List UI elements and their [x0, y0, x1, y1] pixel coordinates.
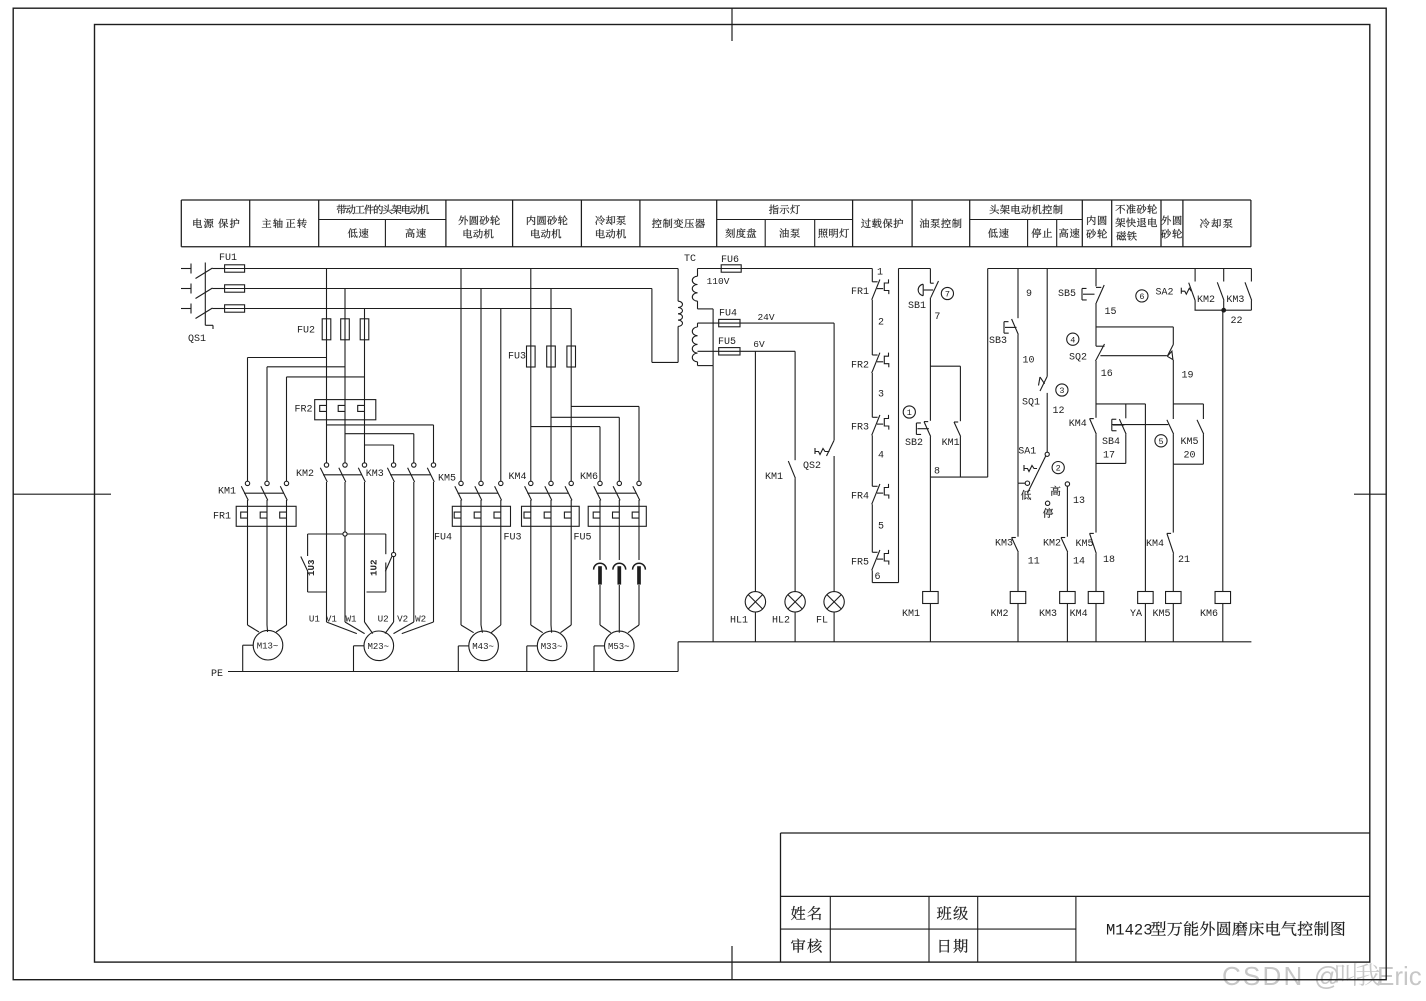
svg-text:M33~: M33~ — [541, 642, 563, 652]
svg-text:QS2: QS2 — [803, 461, 821, 472]
contactor KM5 main contacts — [455, 481, 503, 500]
wire to KM5 coil — [1172, 554, 1174, 592]
wire SB1 to SB2 — [929, 298, 931, 421]
lamp HL1 — [745, 592, 765, 642]
function header table labels — [193, 204, 1232, 240]
wire taps to KM1 — [248, 358, 365, 482]
title block label 日期 — [940, 939, 968, 953]
wire SB2 to KM1 coil — [929, 477, 931, 591]
wire KM2tr stub — [1223, 269, 1225, 282]
wire KM1 to motor M1 — [248, 500, 287, 632]
svg-text:KM4: KM4 — [1070, 609, 1088, 620]
svg-text:V1: V1 — [326, 614, 338, 625]
wire SB1 rail top — [929, 269, 931, 284]
svg-text:16: 16 — [1101, 369, 1113, 380]
stop button SB5 — [1082, 285, 1104, 303]
svg-text:KM3: KM3 — [995, 539, 1013, 550]
wire to KM4 aux b — [1172, 464, 1174, 532]
switch QS2 — [815, 440, 834, 456]
contactor KM1 main contacts — [241, 481, 288, 500]
svg-text:FR3: FR3 — [851, 423, 869, 434]
svg-text:FU5: FU5 — [718, 337, 736, 348]
coil YA — [1138, 592, 1154, 604]
contactor KM6 main contacts — [594, 481, 641, 500]
thermal contact FR3 — [872, 415, 889, 435]
svg-text:KM3: KM3 — [1226, 295, 1244, 306]
svg-text:110V: 110V — [707, 276, 730, 287]
svg-text:4: 4 — [878, 451, 884, 462]
thermal relay under KM5 (FU4) — [452, 506, 510, 526]
svg-text:HL1: HL1 — [730, 615, 748, 626]
stop button SB1 — [918, 281, 938, 298]
coil KM2 — [1010, 592, 1026, 604]
label 高 — [1051, 486, 1061, 496]
svg-text:7: 7 — [945, 290, 950, 300]
label 1U3 — [0, 0, 1, 1]
lamp FL — [824, 592, 844, 642]
transformer TC — [652, 269, 721, 642]
contactor KM2 main contacts — [320, 463, 366, 482]
wire node 8 — [930, 437, 987, 478]
svg-text:17: 17 — [1103, 450, 1115, 461]
svg-text:FL: FL — [816, 615, 828, 626]
svg-text:QS1: QS1 — [188, 334, 206, 345]
limit switch SQ2 contact a — [1096, 344, 1105, 361]
svg-text:3: 3 — [878, 389, 884, 400]
motor M2 circle — [364, 631, 394, 661]
svg-text:FR1: FR1 — [851, 287, 869, 298]
contact KM3 aux top — [1245, 282, 1252, 310]
svg-text:SB1: SB1 — [908, 301, 926, 312]
coil KM3 — [1060, 592, 1076, 604]
svg-text:KM4: KM4 — [508, 472, 526, 483]
svg-text:1: 1 — [907, 408, 912, 418]
svg-text:M23~: M23~ — [367, 642, 389, 652]
svg-text:10: 10 — [1022, 355, 1034, 366]
svg-text:KM1: KM1 — [942, 438, 960, 449]
svg-text:FU3: FU3 — [503, 533, 521, 544]
contact KM4 aux — [1090, 419, 1097, 435]
node circle 6 — [1136, 290, 1148, 302]
wire SA1-low to KM3 contact — [1017, 483, 1019, 537]
contact KM2 aux — [1061, 538, 1068, 553]
svg-text:SB5: SB5 — [1058, 289, 1076, 300]
svg-text:KM4: KM4 — [1146, 539, 1164, 550]
svg-text:M1423: M1423 — [1106, 922, 1153, 940]
label 低 — [1021, 490, 1031, 500]
contact SA1 high position circle — [1065, 482, 1069, 486]
wire KM3 coil to bus — [1066, 604, 1068, 642]
svg-text:HL2: HL2 — [772, 615, 790, 626]
start button SB2 — [916, 422, 930, 437]
svg-text:YA: YA — [1130, 609, 1142, 620]
wire KM3tr stub — [1250, 269, 1252, 282]
coil KM1 — [923, 592, 939, 604]
svg-text:24V: 24V — [757, 312, 774, 323]
svg-text:1U3: 1U3 — [306, 559, 317, 576]
svg-text:3: 3 — [1059, 386, 1064, 396]
wire taps to KM6 — [531, 406, 639, 481]
svg-text:KM1: KM1 — [902, 609, 920, 620]
svg-text:Eric: Eric — [1377, 961, 1422, 991]
PE bus — [228, 642, 678, 672]
svg-text:FU6: FU6 — [721, 255, 739, 266]
centering mark right — [1354, 493, 1386, 495]
fuse FU1 — [225, 265, 245, 312]
svg-text:M13~: M13~ — [257, 641, 279, 651]
svg-text:1U2: 1U2 — [368, 559, 379, 576]
wire phase L1 bus — [245, 268, 678, 270]
wire 19 rail — [1172, 360, 1174, 404]
wire KM1 contact to HL2 — [794, 478, 796, 591]
wire phase drops to KM5 — [461, 269, 501, 482]
contactor KM3 main contacts — [387, 463, 435, 482]
svg-text:SQ1: SQ1 — [1022, 397, 1040, 408]
svg-text:KM5: KM5 — [438, 474, 456, 485]
svg-text:6: 6 — [874, 572, 880, 583]
svg-text:5: 5 — [1158, 437, 1163, 447]
thermal contact FR5 — [872, 550, 889, 570]
title block label 班级 — [937, 906, 968, 920]
function header table grid — [181, 200, 1251, 247]
title block label 审核 — [791, 939, 822, 953]
wire phase L3 bus — [245, 308, 572, 310]
drawing title M1423型万能外圆磨床电气控制图 — [1106, 921, 1345, 940]
selector SA2 — [1181, 283, 1195, 311]
wire node22 to KM6 coil — [1222, 310, 1224, 591]
svg-text:6V: 6V — [753, 339, 765, 350]
contact KM1 aux — [954, 422, 961, 437]
limit switch SQ2 contact b — [1167, 345, 1173, 360]
svg-text:15: 15 — [1104, 307, 1116, 318]
fuse FU5 control — [719, 348, 795, 355]
svg-text:SB2: SB2 — [905, 438, 923, 449]
svg-text:KM3: KM3 — [366, 469, 384, 480]
wire KM4 to KM5b contact — [1095, 434, 1097, 532]
svg-text:KM1: KM1 — [765, 472, 783, 483]
svg-text:KM2: KM2 — [1043, 539, 1061, 550]
centering mark top — [731, 8, 733, 41]
svg-text:U1: U1 — [309, 614, 321, 625]
wire KM3 contact to KM2 coil — [1017, 552, 1019, 591]
wire SB5 rail — [1095, 269, 1097, 287]
fuse FU6 — [721, 265, 872, 272]
node circle 4 — [1067, 333, 1079, 345]
svg-text:SB4: SB4 — [1102, 437, 1120, 448]
node circle 3 — [1056, 384, 1068, 396]
svg-text:FR2: FR2 — [294, 405, 312, 416]
lamp HL2 — [785, 592, 805, 642]
wire KM4 to motor M3 — [531, 500, 571, 633]
thermal contact FR2 — [872, 353, 889, 373]
contact KM4 aux b — [1167, 533, 1174, 553]
wire M2 speed-change loop — [301, 482, 434, 622]
svg-text:KM5: KM5 — [1180, 437, 1198, 448]
node circle 7 — [941, 287, 953, 299]
svg-text:PE: PE — [211, 669, 223, 680]
disconnect switch QS1 — [181, 263, 225, 330]
svg-text:20: 20 — [1183, 450, 1195, 461]
svg-text:7: 7 — [934, 312, 940, 323]
svg-text:12: 12 — [1052, 406, 1064, 417]
svg-text:KM2: KM2 — [990, 609, 1008, 620]
wire SB4 bottom — [1096, 434, 1126, 463]
wire QS2 to FL — [833, 456, 835, 592]
svg-text:2: 2 — [878, 318, 884, 329]
wire SQ1 rail — [1046, 269, 1048, 377]
wire KM2 contact to KM3 coil — [1066, 552, 1068, 591]
wire bracket at 403.9 — [1096, 404, 1145, 592]
start button SB4 — [1112, 419, 1126, 434]
start button SB3 — [1004, 319, 1018, 335]
wire control bus 0V — [678, 641, 1251, 643]
svg-text:SB3: SB3 — [989, 336, 1007, 347]
svg-text:9: 9 — [1026, 289, 1032, 300]
motor M1 — [253, 630, 283, 660]
svg-text:2: 2 — [1056, 464, 1061, 474]
svg-text:W1: W1 — [345, 614, 357, 625]
svg-text:CSDN @: CSDN @ — [1222, 961, 1343, 991]
svg-text:SA2: SA2 — [1155, 288, 1173, 299]
node circle 5 — [1155, 435, 1167, 447]
svg-text:KM5: KM5 — [1075, 539, 1093, 550]
svg-text:FR4: FR4 — [851, 492, 869, 503]
watermark CSDN @叫我Eric — [1222, 961, 1422, 991]
motor M3 — [537, 631, 567, 661]
wire control rail left — [899, 269, 931, 583]
svg-text:KM1: KM1 — [218, 487, 236, 498]
svg-text:SQ2: SQ2 — [1069, 353, 1087, 364]
thermal contact FR4 — [872, 484, 889, 504]
fuse FU3 — [527, 269, 576, 482]
svg-text:TC: TC — [684, 254, 696, 265]
node circle 2 — [1052, 462, 1064, 474]
wire node 22 — [1195, 308, 1252, 313]
wire SA2 stub — [1194, 269, 1196, 282]
contact SA1 stop position circle — [1045, 501, 1049, 505]
wire rail node8 riser — [987, 269, 989, 478]
thermal relay FR1 — [236, 506, 296, 526]
wire to KM1 lamp contact — [794, 351, 796, 460]
wire branch 15 to 19 — [1096, 327, 1173, 345]
svg-text:V2: V2 — [397, 614, 408, 625]
wire overload chain — [872, 269, 898, 583]
fuse FU2 — [322, 269, 369, 400]
svg-text:FU3: FU3 — [508, 352, 526, 363]
wire SB3 rail — [1017, 269, 1019, 319]
contact SA1 low position circle — [1025, 481, 1029, 485]
svg-text:21: 21 — [1178, 555, 1190, 566]
wire into motor M2 — [327, 622, 434, 634]
wire YA coil to bus — [1144, 604, 1146, 642]
svg-text:FR1: FR1 — [213, 512, 231, 523]
svg-text:KM2: KM2 — [1197, 295, 1215, 306]
coil KM5 — [1166, 592, 1182, 604]
svg-text:FR5: FR5 — [851, 558, 869, 569]
node circle 1 — [903, 406, 915, 418]
svg-text:8: 8 — [934, 467, 940, 478]
centering mark bottom — [731, 946, 733, 980]
wire KM2 coil to bus — [1017, 604, 1019, 642]
wire KM1 coil to bus — [929, 604, 931, 642]
coil KM6 — [1215, 592, 1231, 604]
contact KM5 branch a — [1167, 420, 1174, 434]
svg-text:M43~: M43~ — [472, 642, 494, 652]
svg-text:6: 6 — [1139, 292, 1144, 302]
wire SB3 to SA1-low — [1018, 335, 1025, 484]
wire FU2 columns to KM2 and KM3 banks — [327, 420, 434, 463]
wire KM5 to motor M4 — [461, 500, 501, 633]
svg-text:M53~: M53~ — [608, 642, 630, 652]
title block grid — [781, 833, 1370, 962]
svg-text:KM2: KM2 — [296, 469, 314, 480]
svg-text:KM5: KM5 — [1152, 609, 1170, 620]
wire branch to KM1 aux — [930, 366, 960, 421]
svg-text:W2: W2 — [415, 614, 426, 625]
centering mark left — [13, 493, 111, 495]
wire SA1-high to KM2 contact — [1066, 486, 1068, 537]
wire to KM4 coil — [1095, 554, 1097, 592]
contact KM3 aux — [1012, 538, 1019, 553]
wire KM5 coil to bus — [1172, 604, 1174, 642]
wire SQ2 cross link — [1100, 355, 1167, 357]
svg-text:14: 14 — [1073, 556, 1085, 567]
wire KM5 branch bracket — [1173, 404, 1203, 419]
wire right section bus — [988, 268, 1252, 270]
svg-text:KM6: KM6 — [580, 472, 598, 483]
svg-text:19: 19 — [1181, 370, 1193, 381]
limit switch SQ1 — [1039, 376, 1048, 391]
svg-text:KM4: KM4 — [1069, 419, 1087, 430]
wire SB5 to SQ2 — [1095, 303, 1097, 346]
svg-text:13: 13 — [1073, 496, 1085, 507]
title block label 姓名 — [791, 906, 821, 920]
contactor KM4 main contacts — [525, 481, 574, 500]
svg-text:5: 5 — [878, 521, 884, 532]
svg-text:FR2: FR2 — [851, 360, 869, 371]
svg-text:18: 18 — [1103, 555, 1115, 566]
contact KM2 aux top — [1217, 282, 1224, 310]
thermal contact FR1 — [872, 279, 889, 299]
svg-text:1: 1 — [877, 268, 883, 279]
label 停 — [1043, 508, 1053, 518]
svg-text:KM6: KM6 — [1200, 609, 1218, 620]
motor M5 — [605, 631, 635, 661]
wire KM5 branch bottom — [1173, 434, 1203, 464]
thermal relay under KM4 (FU3) — [522, 506, 580, 526]
fuse FU4 control — [719, 319, 834, 326]
svg-text:FU1: FU1 — [219, 253, 237, 264]
svg-text:22: 22 — [1230, 316, 1242, 327]
wire 16 rail — [1095, 361, 1097, 418]
svg-text:KM3: KM3 — [1039, 609, 1057, 620]
wire 24V to QS2 — [833, 323, 835, 440]
svg-text:FU5: FU5 — [573, 533, 591, 544]
motor M4 — [469, 631, 499, 661]
svg-text:FU4: FU4 — [434, 533, 452, 544]
svg-text:4: 4 — [1070, 335, 1075, 345]
wire KM4 coil to bus — [1095, 604, 1097, 642]
svg-text:U2: U2 — [378, 614, 389, 625]
wire KM6 coil to bus — [1222, 604, 1224, 642]
wire SQ1 to SA1 pivot — [1046, 393, 1048, 452]
svg-text:FU4: FU4 — [719, 309, 737, 320]
wire KM6 to motor M5 with thermal protectors — [594, 500, 646, 633]
svg-text:FU2: FU2 — [297, 326, 315, 337]
wire 6V to HL1 — [754, 351, 756, 591]
wire phase L2 bus — [245, 288, 652, 290]
thermal relay FR2 — [315, 400, 376, 420]
contact KM1 lamp — [788, 461, 795, 478]
thermal relay under KM6 (FU5) — [588, 506, 646, 526]
contact KM5 branch b — [1197, 420, 1204, 434]
selector SA1 — [1024, 452, 1049, 493]
coil KM4 — [1088, 592, 1104, 604]
wire SB4 link — [1112, 424, 1169, 426]
contact KM5 aux b — [1090, 533, 1097, 553]
svg-text:SA1: SA1 — [1018, 446, 1036, 457]
svg-text:11: 11 — [1028, 556, 1040, 567]
